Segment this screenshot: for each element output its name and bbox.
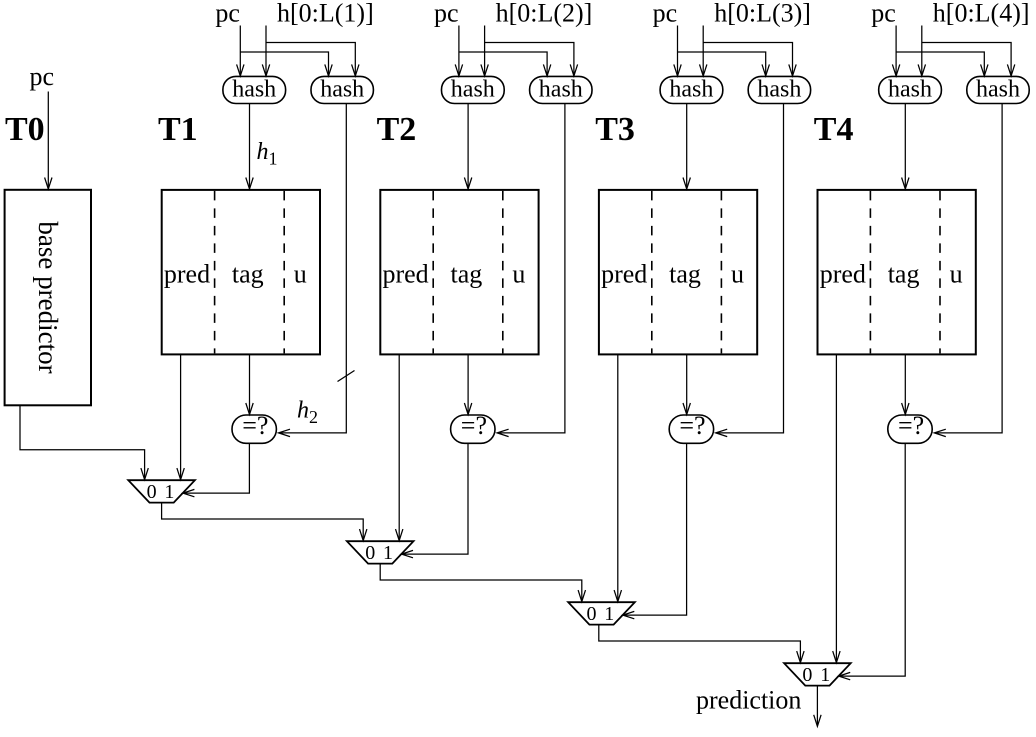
wire mux M1 output to mux M2 — [162, 503, 367, 541]
svg-text:u: u — [294, 260, 307, 289]
svg-text:pc: pc — [434, 0, 459, 28]
comparator =? T2 — [451, 411, 495, 444]
wire index hash to table T1 — [246, 104, 253, 190]
wire comparator output to mux M3 select — [623, 443, 687, 619]
svg-text:hash: hash — [888, 76, 932, 102]
svg-text:hash: hash — [539, 76, 583, 102]
comparator =? T3 — [669, 411, 713, 444]
svg-text:h[0:L(4)]: h[0:L(4)] — [933, 0, 1030, 28]
svg-text:pred: pred — [382, 260, 428, 289]
wire comparator output to mux M2 select — [402, 443, 469, 558]
svg-text:pc: pc — [30, 62, 55, 91]
svg-text:T1: T1 — [158, 111, 198, 148]
wire comparator output to mux M1 select — [183, 443, 250, 497]
svg-text:base predictor: base predictor — [33, 221, 63, 373]
svg-text:pc: pc — [653, 0, 678, 28]
svg-text:tag: tag — [232, 260, 264, 289]
wire tag output T4 to comparator — [902, 354, 909, 414]
label pc (T2) — [434, 0, 459, 28]
label pc (T0) — [30, 62, 55, 91]
svg-text:prediction: prediction — [696, 686, 801, 715]
label T1 — [158, 111, 198, 148]
wire h to hash units T4 — [918, 26, 1015, 76]
table T4 (pred/tag/u) — [818, 190, 976, 355]
label h[0:L(2)] — [496, 0, 593, 28]
wire index hash to table T3 — [683, 104, 690, 190]
wire prediction output — [814, 686, 821, 727]
svg-text:pred: pred — [164, 260, 210, 289]
label pc (T3) — [653, 0, 678, 28]
label pc (T1) — [215, 0, 240, 28]
hash unit (index) T1 — [223, 76, 286, 103]
svg-text:hash: hash — [451, 76, 495, 102]
label h2 — [297, 398, 318, 428]
table T2 (pred/tag/u) — [380, 190, 538, 355]
hash unit (index) T3 — [660, 76, 723, 103]
mux M1 — [128, 480, 195, 503]
label T0 — [5, 111, 45, 148]
wire pred output T2 to mux M2 — [396, 354, 403, 540]
svg-text:pc: pc — [871, 0, 896, 28]
mux M2 — [347, 541, 414, 564]
svg-text:tag: tag — [888, 260, 920, 289]
wire h to hash units T2 — [481, 26, 578, 76]
svg-text:tag: tag — [451, 260, 483, 289]
hash unit (tag) T2 — [530, 76, 592, 103]
label h[0:L(4)] — [933, 0, 1030, 28]
svg-text:T2: T2 — [377, 111, 417, 148]
svg-text:h[0:L(2)]: h[0:L(2)] — [496, 0, 593, 28]
svg-text:h[0:L(1)]: h[0:L(1)] — [277, 0, 374, 28]
hash unit (index) T2 — [442, 76, 505, 103]
wire mux M3 output to mux M4 — [599, 625, 804, 663]
mux M3 — [568, 602, 635, 625]
wire tag hash to comparator T3 — [716, 104, 784, 437]
svg-text:h[0:L(3)]: h[0:L(3)] — [714, 0, 811, 28]
svg-text:=?: =? — [242, 411, 268, 440]
svg-text:u: u — [950, 260, 963, 289]
wire base predictor to mux M1 input 0 — [20, 405, 148, 479]
hash unit (index) T4 — [879, 76, 942, 103]
table T3 (pred/tag/u) — [599, 190, 757, 355]
svg-text:tag: tag — [669, 260, 701, 289]
wire tag output T3 to comparator — [683, 354, 690, 414]
svg-text:0: 0 — [802, 664, 812, 686]
wire pc to hash units T1 — [237, 26, 333, 76]
svg-text:T3: T3 — [595, 111, 635, 148]
wire tag hash to comparator T4 — [934, 104, 1002, 437]
hash unit (tag) T3 — [748, 76, 810, 103]
svg-text:hash: hash — [976, 76, 1020, 102]
wire h to hash units T3 — [700, 26, 797, 76]
svg-text:0: 0 — [587, 603, 597, 625]
wire pc to hash units T2 — [455, 26, 551, 76]
svg-text:hash: hash — [757, 76, 801, 102]
label T4 — [814, 111, 854, 148]
svg-text:hash: hash — [320, 76, 364, 102]
svg-text:=?: =? — [679, 411, 705, 440]
svg-text:1: 1 — [383, 542, 393, 564]
svg-text:pc: pc — [215, 0, 240, 28]
wire h to hash units T1 — [262, 26, 359, 76]
svg-text:u: u — [731, 260, 744, 289]
svg-text:1: 1 — [604, 603, 614, 625]
wire pred output T1 to mux M1 — [177, 354, 184, 479]
svg-text:pred: pred — [601, 260, 647, 289]
svg-text:0: 0 — [365, 542, 375, 564]
wire pc to base predictor — [45, 92, 52, 190]
svg-text:1: 1 — [164, 481, 174, 503]
label prediction — [696, 686, 801, 715]
label T3 — [595, 111, 635, 148]
svg-text:pred: pred — [820, 260, 866, 289]
label T2 — [377, 111, 417, 148]
hash unit (tag) T1 — [311, 76, 373, 103]
svg-text:hash: hash — [669, 76, 713, 102]
wire pred output T4 to mux M4 — [833, 354, 840, 662]
wire tag hash to comparator T1 — [279, 104, 347, 437]
mux M4 — [784, 663, 851, 686]
wire tag hash to comparator T2 — [497, 104, 565, 437]
wire pc to hash units T4 — [892, 26, 988, 76]
svg-text:=?: =? — [898, 411, 924, 440]
label pc (T4) — [871, 0, 896, 28]
svg-text:hash: hash — [232, 76, 276, 102]
bus width slash — [338, 371, 355, 382]
wire index hash to table T4 — [902, 104, 909, 190]
wire pc to hash units T3 — [674, 26, 770, 76]
wire index hash to table T2 — [464, 104, 471, 190]
label h[0:L(1)] — [277, 0, 374, 28]
label h1 — [257, 139, 278, 169]
wire comparator output to mux M4 select — [839, 443, 906, 680]
wire pred output T3 to mux M3 — [614, 354, 621, 601]
svg-text:0: 0 — [147, 481, 157, 503]
label h[0:L(3)] — [714, 0, 811, 28]
svg-text:1: 1 — [820, 664, 830, 686]
svg-text:T0: T0 — [5, 111, 45, 148]
svg-text:T4: T4 — [814, 111, 854, 148]
wire tag output T2 to comparator — [464, 354, 471, 414]
wire mux M2 output to mux M3 — [380, 564, 585, 602]
svg-text:=?: =? — [461, 411, 487, 440]
base predictor T0 — [5, 190, 91, 405]
comparator =? T1 — [232, 411, 276, 444]
wire tag output T1 to comparator — [246, 354, 253, 414]
comparator =? T4 — [888, 411, 932, 444]
table T1 (pred/tag/u) — [162, 190, 320, 355]
hash unit (tag) T4 — [967, 76, 1029, 103]
svg-text:u: u — [512, 260, 525, 289]
